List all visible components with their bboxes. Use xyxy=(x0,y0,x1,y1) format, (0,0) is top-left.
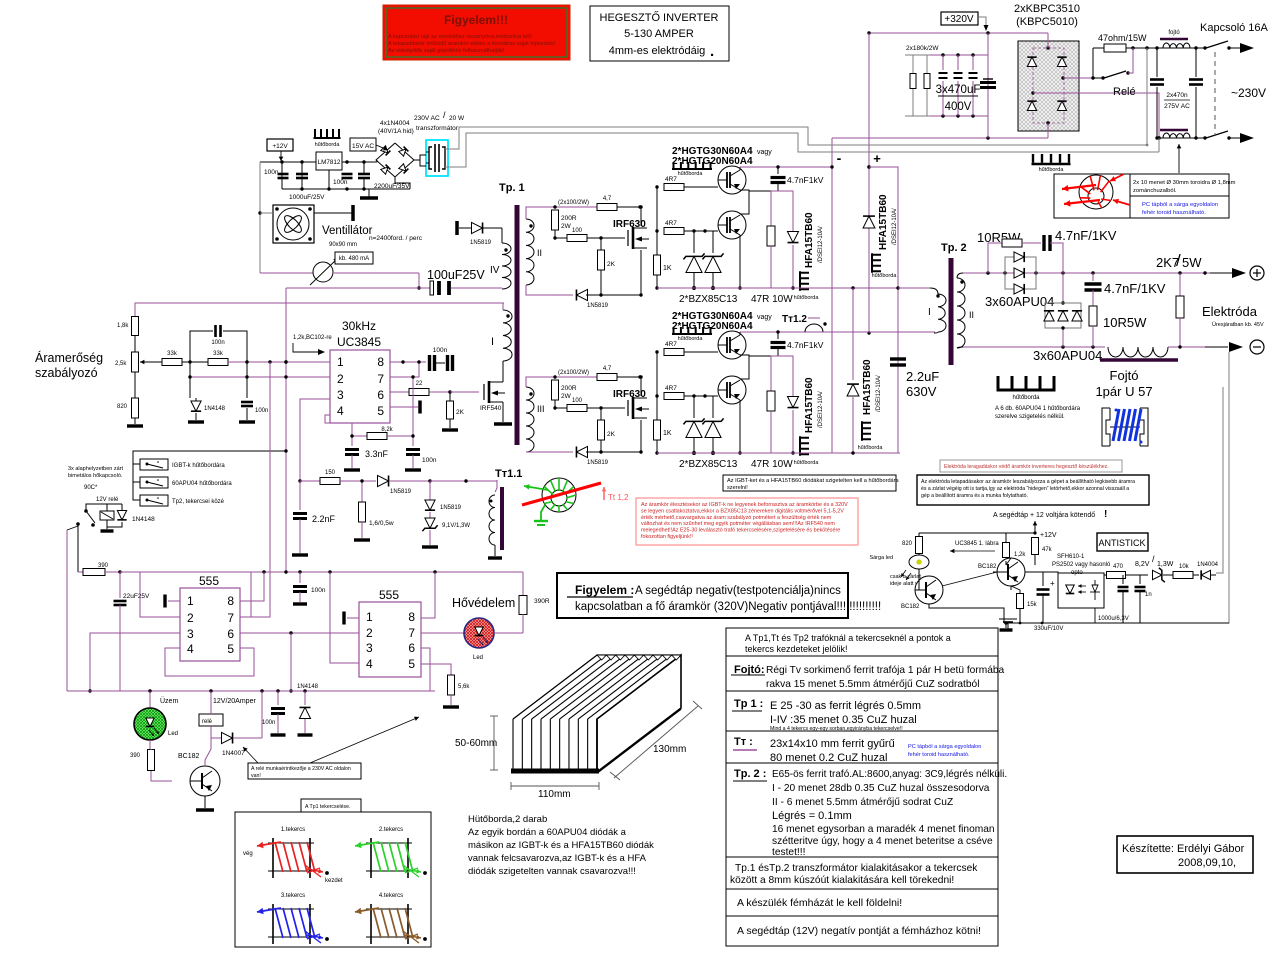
svg-text:47R 10W: 47R 10W xyxy=(751,459,793,470)
capacitor 2x470n #1 xyxy=(1156,48,1158,77)
note box elektroda leragadas xyxy=(940,460,1122,472)
svg-text:csak a zárlat: csak a zárlat xyxy=(890,574,921,580)
svg-text:Kapcsoló 16A: Kapcsoló 16A xyxy=(1200,22,1269,34)
svg-text:100n: 100n xyxy=(422,457,437,464)
svg-text:100n: 100n xyxy=(264,169,279,176)
capacitor 2.2nF mid xyxy=(299,481,301,510)
svg-text:80 menet 0.2 CuZ huzal: 80 menet 0.2 CuZ huzal xyxy=(770,752,887,764)
relay rele box xyxy=(199,714,223,726)
wire BC182 collector xyxy=(205,738,211,766)
note box elektroda letapad xyxy=(917,475,1149,505)
svg-text:kezdet: kezdet xyxy=(325,878,343,884)
555#1 pin8 wire xyxy=(240,572,264,601)
wire out bottom xyxy=(963,346,1105,348)
svg-text:390: 390 xyxy=(130,753,141,759)
wire cap to 47R up xyxy=(777,183,779,191)
svg-text:rakva 15 menet 5.5mm átmérő: rakva 15 menet 5.5mm átmérőjű CuZ sodrat… xyxy=(766,679,979,690)
wire 200R bottom dn xyxy=(554,400,556,408)
resistor 8,2k xyxy=(352,423,367,436)
wire fan left xyxy=(259,162,261,273)
svg-text:16 menet egysorban a maradék 4: 16 menet egysorban a maradék 4 menet fin… xyxy=(772,824,995,835)
bus 572 xyxy=(120,571,523,573)
resistor 100 up xyxy=(555,237,567,239)
svg-text:n=2400ford. / perc: n=2400ford. / perc xyxy=(369,235,423,242)
svg-text:100n: 100n xyxy=(255,408,268,414)
resistor 47R 10W dn xyxy=(771,356,778,391)
svg-text:szerelni!: szerelni! xyxy=(727,485,748,491)
svg-text:1N4004: 1N4004 xyxy=(1197,562,1219,568)
note box IGBT szigetelten xyxy=(723,475,896,491)
svg-text:555: 555 xyxy=(379,588,399,602)
wire pin2 xyxy=(286,376,330,378)
svg-text:UC3845 1. lábra: UC3845 1. lábra xyxy=(955,541,999,547)
svg-text:Fojtó:: Fojtó: xyxy=(734,664,765,676)
svg-text:PC tápból a sárga egyoldalon: PC tápból a sárga egyoldalon xyxy=(1142,202,1218,208)
capacitor 4.7nF1kV dn xyxy=(777,332,779,339)
svg-text:2.tekercs: 2.tekercs xyxy=(379,827,403,833)
svg-text:Az elektróda letapadásakor az: Az elektróda letapadásakor az áramkör le… xyxy=(921,479,1135,485)
IGBT Qup1 xyxy=(718,166,746,194)
svg-text:~230V: ~230V xyxy=(1231,86,1266,100)
wire bridge to transformer xyxy=(414,155,426,160)
wire aux top rail xyxy=(260,161,316,163)
svg-text:Tt 1,2: Tt 1,2 xyxy=(608,493,629,502)
IC LM7812 xyxy=(316,152,342,170)
ammeter kb. 480 mA xyxy=(260,272,314,274)
svg-text:2.2uF: 2.2uF xyxy=(906,369,939,384)
optocoupler box xyxy=(1058,573,1104,608)
wire collector rail dn xyxy=(740,331,832,333)
svg-text:+12V: +12V xyxy=(272,143,288,150)
svg-text:ANTISTICK: ANTISTICK xyxy=(1098,538,1145,548)
svg-text:1N5819: 1N5819 xyxy=(470,240,492,246)
svg-text:2x 10 menet Ø 30mm toroidra Ø: 2x 10 menet Ø 30mm toroidra Ø 1,8mm xyxy=(1133,180,1236,186)
diodes 3x60APU04 bottom xyxy=(1045,303,1081,328)
svg-text:I: I xyxy=(491,336,494,348)
wire 2200uF ground xyxy=(368,189,370,197)
notes table outer xyxy=(726,628,998,946)
svg-text:fokozottan figyeljünk!!: fokozottan figyeljünk!! xyxy=(641,534,693,540)
resistor 47k xyxy=(1032,538,1039,555)
svg-text:Sárga led: Sárga led xyxy=(869,555,893,561)
svg-text:2*HGTG20N60A4: 2*HGTG20N60A4 xyxy=(672,321,753,332)
wire 15VAC-bridge2 xyxy=(376,160,378,162)
svg-text:/DSEI12-10A/: /DSEI12-10A/ xyxy=(818,226,824,263)
svg-text:60APU04 hűtőbordára: 60APU04 hűtőbordára xyxy=(172,481,232,487)
svg-text:változhat és nem szűnhet meg e: változhat és nem szűnhet meg egyik potmé… xyxy=(641,521,835,527)
svg-text:1: 1 xyxy=(337,355,344,369)
capacitor 2x470n #2 xyxy=(1195,48,1197,77)
note box figyelem segedtap xyxy=(557,573,848,618)
svg-text:820: 820 xyxy=(902,541,913,547)
svg-text:4.7nF1kV: 4.7nF1kV xyxy=(787,175,824,185)
heatsink 3D right face xyxy=(597,655,681,772)
choke output Fojtó xyxy=(1108,347,1168,357)
svg-text:23x14x10 mm ferrit gyűrű: 23x14x10 mm ferrit gyűrű xyxy=(770,738,895,750)
svg-text:400V: 400V xyxy=(945,101,972,113)
svg-text:3x alaphelyzetben zárt: 3x alaphelyzetben zárt xyxy=(68,466,124,472)
svg-text:1,8k: 1,8k xyxy=(117,323,129,329)
wire cap to 47R dn xyxy=(777,348,779,356)
svg-text:820: 820 xyxy=(117,404,128,410)
wire Tt1.1 bottom xyxy=(490,545,495,552)
svg-text:2K: 2K xyxy=(607,261,616,268)
svg-text:A letapadáskor működő áramkör: A letapadáskor működő áramkör ebben a fo… xyxy=(388,41,556,47)
svg-text:szabályozó: szabályozó xyxy=(35,366,98,380)
555#1 pin1 term xyxy=(168,600,180,602)
svg-text:4R7: 4R7 xyxy=(665,176,677,183)
wire bridge negative y=138 xyxy=(832,137,1048,139)
svg-text:275V AC: 275V AC xyxy=(1164,103,1190,110)
svg-text:A Tp1 tekercselése.: A Tp1 tekercselése. xyxy=(305,804,350,810)
winding II xyxy=(526,219,534,285)
wire top feed xyxy=(135,303,504,321)
wire aux primary to mains xyxy=(445,127,1147,149)
wire gray from minus-terminal down xyxy=(1223,347,1228,385)
svg-text:1K: 1K xyxy=(663,265,672,272)
svg-text:9,1V/1,3W: 9,1V/1,3W xyxy=(442,523,470,529)
zener pair 2*BZX85C13 dn xyxy=(693,396,695,418)
heatsink 3D base xyxy=(511,769,599,774)
555#1 pin4-5 loop xyxy=(165,648,254,676)
bus bottom up xyxy=(657,287,900,289)
svg-text:20 W: 20 W xyxy=(449,115,465,122)
svg-text:4,7: 4,7 xyxy=(603,366,612,372)
IGBT Qdn1 xyxy=(718,331,746,359)
svg-text:Az utánépítők saját gépükhöz f: Az utánépítők saját gépükhöz felhasználh… xyxy=(388,48,505,54)
svg-text:Üresjáratban kb. 45V: Üresjáratban kb. 45V xyxy=(1212,321,1264,328)
choke fojtó bottom xyxy=(1160,129,1188,132)
svg-text:II: II xyxy=(537,248,542,258)
wire +320V bus y=33 xyxy=(869,32,1048,34)
box +12V xyxy=(267,139,293,151)
wire x=988 vertical xyxy=(987,33,989,138)
transformer aux with cyan frame xyxy=(426,140,448,176)
zener 9,1V/1,3W xyxy=(422,518,437,531)
svg-text:470: 470 xyxy=(1113,564,1124,570)
svg-text:630V: 630V xyxy=(906,384,937,399)
capacitor 1n xyxy=(1139,575,1141,584)
wire +12V arrow xyxy=(1034,521,1036,532)
svg-text:2x470n: 2x470n xyxy=(1166,92,1188,99)
svg-text:2: 2 xyxy=(366,626,373,640)
capacitor 100n pin7b xyxy=(412,436,414,446)
svg-text:555: 555 xyxy=(199,574,219,588)
svg-text:1n: 1n xyxy=(1145,592,1152,598)
svg-text:1: 1 xyxy=(187,594,194,608)
switch pole2 xyxy=(1203,136,1206,139)
+320V label box xyxy=(941,12,978,25)
svg-text:A segédtáp + 12 voltjára köten: A segédtáp + 12 voltjára kötendő xyxy=(993,512,1095,519)
diode 1N4148 uc xyxy=(191,401,201,411)
red line through toroid xyxy=(522,483,601,505)
note box rele munkaerintkezoje xyxy=(248,763,361,779)
svg-text:/DSEI12-10A/: /DSEI12-10A/ xyxy=(818,391,824,428)
wire x1147 up xyxy=(1146,48,1148,145)
wire row 480 xyxy=(300,480,320,482)
pin5 terminator xyxy=(390,406,418,408)
resistor 1K up xyxy=(654,255,661,275)
capacitor 2.2uF 630V xyxy=(897,288,899,352)
svg-text:A Tp1,Tt és Tp2 trafóknál a te: A Tp1,Tt és Tp2 trafóknál a tekercseknél… xyxy=(745,633,951,643)
svg-text:vég: vég xyxy=(243,851,253,857)
svg-text:diódák szigetelten vannak csav: diódák szigetelten vannak csavarozva!!! xyxy=(468,866,636,877)
svg-text:6: 6 xyxy=(408,641,415,655)
svg-text:hűtőborda: hűtőborda xyxy=(315,142,341,148)
555#1 pin3 wire xyxy=(90,633,180,691)
thermal switch 2 xyxy=(140,477,168,488)
toroid drawing red xyxy=(1079,175,1113,209)
svg-text:15k: 15k xyxy=(1027,602,1038,608)
svg-text:/DSEI12-10A/: /DSEI12-10A/ xyxy=(892,208,898,245)
title box HEGESZTŐ INVERTER xyxy=(590,6,729,61)
svg-text:HFA15TB60: HFA15TB60 xyxy=(862,359,873,415)
555#1 pin6 wire xyxy=(240,632,359,634)
warning box Figyelem!!! xyxy=(383,5,570,60)
wire pin7 xyxy=(390,362,419,377)
svg-text:szerelve szigetelés nélkül.: szerelve szigetelés nélkül. xyxy=(995,414,1065,420)
svg-text:1N4007: 1N4007 xyxy=(222,750,245,757)
relay contact left xyxy=(84,509,88,513)
svg-text:Tp. 1: Tp. 1 xyxy=(499,182,525,194)
wire left vertical dn xyxy=(656,352,658,420)
svg-text:4x1N4004: 4x1N4004 xyxy=(380,120,410,127)
svg-text:2: 2 xyxy=(187,611,194,625)
toroid Tt green xyxy=(542,478,576,512)
wire anti mid xyxy=(1025,571,1043,573)
svg-text:47k: 47k xyxy=(1042,547,1053,553)
wire +rail x=869 xyxy=(868,33,870,333)
choke core drawing blue xyxy=(1102,408,1110,446)
svg-text:100n: 100n xyxy=(333,179,348,186)
winding IV xyxy=(502,243,511,289)
svg-text:2,5k: 2,5k xyxy=(115,361,127,367)
capacitor anti small xyxy=(1122,575,1124,584)
svg-text:4mm-es elektródáig: 4mm-es elektródáig xyxy=(609,45,706,57)
box Keszitette xyxy=(1117,836,1253,873)
svg-text:12V relé: 12V relé xyxy=(96,497,119,503)
svg-text:Tp. 2: Tp. 2 xyxy=(941,242,967,254)
wire pin1 xyxy=(286,361,330,363)
svg-text:3.tekercs: 3.tekercs xyxy=(281,893,305,899)
notes table row lines xyxy=(726,655,998,657)
svg-text:3: 3 xyxy=(337,388,344,402)
svg-text:90C*: 90C* xyxy=(84,485,98,491)
svg-text:2xKBPC3510: 2xKBPC3510 xyxy=(1014,3,1080,15)
555#2 pin8 wire xyxy=(421,572,435,618)
svg-text:10k: 10k xyxy=(1179,564,1190,570)
svg-text:testet!!!: testet!!! xyxy=(772,847,805,858)
wire Tr1.2 to Tp2 xyxy=(823,331,869,333)
wire 47k to opto xyxy=(1025,565,1035,572)
diode HFA15TB60 up xyxy=(778,191,793,231)
resistor 15k xyxy=(1017,594,1024,609)
svg-text:fehér toroid használható.: fehér toroid használható. xyxy=(908,752,970,758)
svg-text:BC182: BC182 xyxy=(901,604,920,610)
diodes 3x60APU04 top xyxy=(1005,257,1036,289)
capacitor 2200uF/35V xyxy=(358,173,370,176)
svg-text:330uF/10V: 330uF/10V xyxy=(1034,626,1063,632)
svg-text:hűtőborda: hűtőborda xyxy=(794,295,820,301)
bus 691 xyxy=(67,690,435,692)
LED red Hővédelem xyxy=(464,618,494,648)
svg-text:100n: 100n xyxy=(262,720,275,726)
svg-text:100n: 100n xyxy=(433,347,448,354)
capacitor bank 3x470uF/400V xyxy=(930,54,988,56)
wire 200R bottom up xyxy=(554,230,556,238)
svg-text:Elektróda: Elektróda xyxy=(1202,304,1258,319)
svg-text:3x60APU04: 3x60APU04 xyxy=(1033,348,1102,363)
svg-text:IGBT-k hűtőbordára: IGBT-k hűtőbordára xyxy=(172,463,225,469)
svg-text:1K: 1K xyxy=(663,430,672,437)
diode 1N4007 xyxy=(222,732,233,743)
winding III xyxy=(526,387,534,452)
svg-text:3x470uF: 3x470uF xyxy=(936,84,981,96)
svg-text:4: 4 xyxy=(337,404,344,418)
fan Ventillátor xyxy=(273,205,314,243)
svg-text:E 25 -30 as ferrit légrés 0.: E 25 -30 as ferrit légrés 0.5mm xyxy=(770,700,921,712)
svg-text:100n: 100n xyxy=(211,340,224,346)
svg-text:A 6 db. 60APU04 1 hűtőbordára: A 6 db. 60APU04 1 hűtőbordára xyxy=(995,406,1081,412)
wire left vertical up xyxy=(656,187,658,255)
svg-text:transzformátor: transzformátor xyxy=(416,125,459,132)
diode 1N5819 v xyxy=(429,481,431,500)
svg-text:230V AC: 230V AC xyxy=(414,115,440,122)
table small gnd xyxy=(1007,622,1009,630)
svg-text:150: 150 xyxy=(325,470,336,476)
svg-text:2K: 2K xyxy=(456,409,465,416)
svg-text:4.tekercs: 4.tekercs xyxy=(379,893,403,899)
thermal switch 1 xyxy=(140,459,168,470)
wire to Tt1.1 xyxy=(430,480,497,482)
resistor 390R xyxy=(522,572,524,596)
thermal switch wiring xyxy=(133,464,140,500)
svg-text:(2x100/2W): (2x100/2W) xyxy=(558,200,589,206)
wire x=898 right branch xyxy=(869,167,898,453)
svg-text:vagy: vagy xyxy=(757,314,772,321)
svg-text:Figyelem :: Figyelem : xyxy=(575,583,634,597)
capacitor 330uF/10V xyxy=(1042,572,1044,586)
svg-text:2W: 2W xyxy=(561,223,572,230)
svg-text:HFA15TB60: HFA15TB60 xyxy=(878,194,889,250)
wire mid rail 288 xyxy=(832,287,900,289)
svg-text:8: 8 xyxy=(408,610,415,624)
svg-text:BC182: BC182 xyxy=(978,564,997,570)
svg-text:hűtőborda: hűtőborda xyxy=(1039,167,1065,173)
svg-text:-: - xyxy=(837,150,842,166)
svg-text:HEGESZTŐ INVERTER: HEGESZTŐ INVERTER xyxy=(600,10,719,24)
antistick bottom rail xyxy=(1004,622,1229,624)
svg-text:3: 3 xyxy=(366,641,373,655)
transistor BC182 anti2 xyxy=(997,558,1025,586)
555#2 pin1 term xyxy=(347,617,359,619)
svg-text:2x180k/2W: 2x180k/2W xyxy=(906,45,939,52)
svg-text:4.7nF/1KV: 4.7nF/1KV xyxy=(1104,281,1166,296)
svg-text:Az IGBT-ket és a HFA15TB60 dió: Az IGBT-ket és a HFA15TB60 diódákat szig… xyxy=(727,478,900,484)
555#1 pin7 wire xyxy=(240,572,251,617)
svg-text:2W: 2W xyxy=(561,393,572,400)
driver up top rail xyxy=(540,206,617,208)
svg-text:PC tápból a sárga egyoldalon: PC tápból a sárga egyoldalon xyxy=(908,744,981,750)
svg-text:1N5819: 1N5819 xyxy=(587,303,609,309)
svg-text:Tт :: Tт : xyxy=(734,736,753,748)
resistor 1,2k anti xyxy=(1003,543,1010,558)
svg-text:1N5819: 1N5819 xyxy=(587,460,609,466)
svg-text:1N5819: 1N5819 xyxy=(440,505,462,511)
svg-text:Az egyik bordán a 60APU04 diód: Az egyik bordán a 60APU04 diódák a xyxy=(468,827,627,838)
svg-text:90x90 mm: 90x90 mm xyxy=(329,242,357,248)
heatsink comb IGBT up xyxy=(672,168,712,170)
svg-text:között a 8mm kúszóút kialakitá: között a 8mm kúszóút kialakitására kell … xyxy=(730,875,954,886)
svg-text:zománchuzalból.: zománchuzalból. xyxy=(1133,188,1177,194)
svg-text:22: 22 xyxy=(416,381,423,387)
bridge rectifier 2xKBPC3510 block xyxy=(1018,41,1079,131)
svg-text:2K: 2K xyxy=(607,431,616,438)
note box red airamkor xyxy=(636,498,858,545)
svg-text:hűtőborda: hűtőborda xyxy=(872,273,898,279)
svg-text:4,7: 4,7 xyxy=(603,196,612,202)
box 15V AC xyxy=(350,138,376,151)
svg-text:Tт1.2: Tт1.2 xyxy=(782,314,807,325)
resistor 47R 10W up xyxy=(771,191,778,226)
svg-text:3.3nF: 3.3nF xyxy=(365,449,389,459)
svg-text:100: 100 xyxy=(572,228,583,234)
capacitor 4.7nF1kV up xyxy=(777,167,779,174)
wire bridge AC right xyxy=(1063,77,1093,79)
svg-text:47ohm/15W: 47ohm/15W xyxy=(1098,33,1147,43)
svg-text:érték mérhető,csavargatva az á: érték mérhető,csavargatva az áram szabál… xyxy=(641,515,832,521)
driver dn top rail xyxy=(540,376,617,378)
555#2 pin5 wire xyxy=(421,664,451,675)
svg-text:Ventillátor: Ventillátor xyxy=(322,225,373,237)
svg-text:SFH610-1: SFH610-1 xyxy=(1057,554,1085,560)
svg-text:bimetálos hőkapcsoló.: bimetálos hőkapcsoló. xyxy=(68,473,123,479)
winding IV bottom wire xyxy=(453,287,502,289)
svg-text:5W: 5W xyxy=(1182,255,1202,270)
svg-text:(40V/1A hid): (40V/1A hid) xyxy=(378,128,414,135)
diode HFA15TB60 free-dn xyxy=(852,288,854,380)
svg-text:PS2502 vagy hasonló: PS2502 vagy hasonló xyxy=(1052,562,1111,568)
svg-text:A kapcsolási rajz az eredetihe: A kapcsolási rajz az eredetihez viszonyí… xyxy=(388,34,532,40)
wire x1159 down xyxy=(1158,138,1160,152)
capacitor 100n relay xyxy=(277,691,279,705)
555#1 pin2 wire xyxy=(140,572,180,617)
svg-text:6: 6 xyxy=(377,388,384,402)
svg-text:UC3845: UC3845 xyxy=(337,335,381,349)
svg-text:22uF25V: 22uF25V xyxy=(123,593,150,600)
winding Tp2 II xyxy=(957,278,965,348)
svg-text:200R: 200R xyxy=(561,385,577,392)
wire to X-caps xyxy=(1147,47,1205,49)
svg-text:5: 5 xyxy=(227,642,234,656)
svg-text:33k: 33k xyxy=(167,351,178,357)
svg-text:8: 8 xyxy=(377,355,384,369)
relay contact Relé xyxy=(1093,77,1102,79)
capacitor 100uF25V xyxy=(418,273,420,288)
wire 390 row572 xyxy=(78,571,84,573)
wire row2 xyxy=(190,376,330,378)
svg-text:1000u/6,3V: 1000u/6,3V xyxy=(1098,616,1129,622)
wire rele to diode xyxy=(211,726,221,738)
svg-text:hűtőborda: hűtőborda xyxy=(678,336,704,342)
svg-text:I - 20 menet 28db 0.35 C: I - 20 menet 28db 0.35 CuZ huzal összeso… xyxy=(772,783,990,794)
svg-text:4R7: 4R7 xyxy=(665,341,677,348)
svg-text:Tp.1 ésTp.2 transzformátor kia: Tp.1 ésTp.2 transzformátor kialakitásako… xyxy=(735,863,978,874)
svg-text:5-130 AMPER: 5-130 AMPER xyxy=(624,28,694,40)
svg-text:Relé: Relé xyxy=(1113,86,1136,98)
svg-text:HFA15TB60: HFA15TB60 xyxy=(804,212,815,268)
svg-text:4R7: 4R7 xyxy=(665,385,677,392)
